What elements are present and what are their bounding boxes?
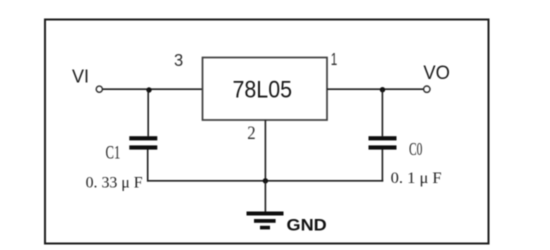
capacitor C1 top plate <box>129 136 157 140</box>
node junction ground rail <box>263 178 268 183</box>
wire: U1 pin 2 down to ground rail <box>264 120 266 181</box>
node junction output/C0 <box>380 87 385 92</box>
wire: C1 lead from bottom plate to ground rail <box>147 150 149 182</box>
capacitor C1 bottom plate <box>129 145 157 149</box>
svg-text:C0: C0 <box>409 139 423 159</box>
svg-text:VO: VO <box>423 62 450 84</box>
svg-text:GND: GND <box>287 216 327 235</box>
wire: C0 lead from output node down to top plate <box>381 90 383 137</box>
svg-text:VI: VI <box>72 66 89 87</box>
wire: ground rail down to ground symbol <box>264 181 266 212</box>
svg-text:0. 1 μ F: 0. 1 μ F <box>391 170 442 187</box>
svg-text:78L05: 78L05 <box>233 77 293 103</box>
ground bar 2 <box>254 219 276 223</box>
op-amp U1 78L05 regulator box <box>203 58 328 121</box>
node VO terminal <box>424 86 430 92</box>
svg-text:2: 2 <box>247 123 255 144</box>
node junction input/C1 <box>146 87 151 92</box>
wire output: U1 pin 1 to VO terminal <box>327 88 424 90</box>
svg-text:1: 1 <box>331 49 338 69</box>
wire input: VI terminal to U1 pin 3 <box>103 88 203 90</box>
svg-text:C1: C1 <box>106 142 121 163</box>
node VI terminal <box>96 86 102 92</box>
wire ground rail: C1 to C0 <box>147 180 383 182</box>
ground bar 1 <box>247 212 284 216</box>
capacitor C0 bottom plate <box>369 145 397 149</box>
svg-text:3: 3 <box>174 50 183 70</box>
wire: C1 lead from input node down to top plate <box>147 90 149 136</box>
border frame <box>45 20 489 244</box>
wire: C0 lead from bottom plate to ground rail <box>381 150 383 182</box>
ground bar 3 <box>260 226 270 230</box>
svg-text:0. 33 μ F: 0. 33 μ F <box>86 175 143 192</box>
capacitor C0 top plate <box>369 136 397 140</box>
